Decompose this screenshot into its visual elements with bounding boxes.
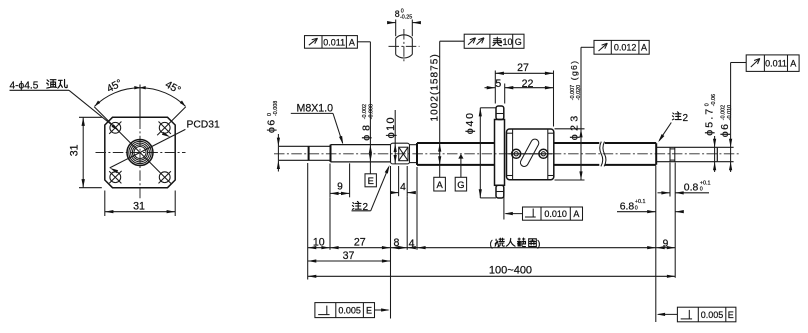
- PCD31 dimension line through center with outward arrows: [110, 129, 186, 168]
- svg-text:0.011: 0.011: [323, 37, 345, 47]
- svg-text:E: E: [728, 310, 734, 320]
- svg-text:1002(15875): 1002(15875): [430, 53, 441, 121]
- svg-text:ϕ23: ϕ23: [568, 112, 580, 140]
- nut grease hole screw left: [512, 149, 521, 158]
- svg-text:-0.25: -0.25: [400, 15, 412, 21]
- short neck before screw: [410, 144, 418, 146]
- runout frame 4: 0.012 A: [594, 40, 649, 54]
- dia5.7 dimension line: [714, 136, 716, 172]
- main centerline of screw shaft: [274, 153, 739, 155]
- svg-text:0.005: 0.005: [701, 310, 724, 320]
- svg-text:A: A: [641, 43, 647, 53]
- svg-text:-0.06: -0.06: [711, 94, 717, 106]
- perpendicularity frame: 0.005 E (bottom right): [677, 307, 736, 322]
- dimension 9 right (journal length): [656, 247, 675, 249]
- slot line through grease screws: [509, 153, 552, 155]
- label dia8 with tolerance: [361, 104, 375, 141]
- dimension 4 (snap ring groove width): [398, 166, 400, 196]
- svg-text:ϕ10: ϕ10: [385, 116, 397, 138]
- pipe break symbol: [600, 142, 603, 167]
- svg-text:): ): [537, 238, 540, 249]
- svg-text:2: 2: [363, 202, 369, 213]
- nut body: [507, 129, 554, 180]
- svg-text:0.012: 0.012: [614, 43, 637, 53]
- svg-text:0: 0: [705, 103, 711, 106]
- perpendicularity frame: 0.005 E (bottom left): [315, 303, 375, 318]
- label dia23 tolerance (g6): [568, 60, 582, 140]
- runout frame 1: 0.011 A (left top): [305, 36, 358, 49]
- feature control frame 1 leader + dia8 dimension line + datum E: [357, 41, 370, 43]
- svg-text:0: 0: [635, 205, 638, 211]
- datum box G with target arrow on centerline: [460, 158, 462, 177]
- datum box A (screw axis): [434, 177, 446, 191]
- svg-text:ϕ6: ϕ6: [265, 118, 277, 133]
- dimension dia10 groove section: [394, 110, 396, 164]
- svg-text:0.8: 0.8: [684, 182, 699, 193]
- flange front view centerline vertical (solid above square): [139, 85, 141, 119]
- 45deg radial tick through BL hole: [109, 171, 121, 183]
- svg-text:+0.1: +0.1: [700, 180, 711, 186]
- dimension row: 10 / 27 / 8 / 4 / hardened range / 9: [308, 247, 656, 249]
- dimension dia40 (nut flange OD): [480, 107, 496, 109]
- extension lines for 27/5/22: [494, 71, 496, 104]
- note2 label right (snap ring groove): [672, 112, 681, 120]
- perpendicular tick BR hole: [159, 171, 171, 183]
- svg-text:2: 2: [683, 113, 689, 124]
- dia6 right dimension line + frame5 leader: [731, 62, 747, 64]
- svg-text:-0.008: -0.008: [368, 104, 374, 119]
- svg-text:0.010: 0.010: [544, 209, 567, 219]
- M8 thread section step edges: [308, 146, 310, 161]
- perpendicular tick BL hole: [109, 171, 121, 183]
- 45deg radial tick through TR hole extended to arc: [157, 107, 186, 136]
- svg-text:37: 37: [343, 250, 355, 262]
- svg-text:-0.010: -0.010: [727, 105, 733, 120]
- bolt hole 1 (4-dia4.5): [110, 122, 121, 133]
- svg-text:31: 31: [68, 144, 80, 156]
- flange center thread rings (screw shank seen through): [127, 140, 153, 166]
- total runout frame: table10 G: [464, 34, 524, 48]
- svg-text:(g6): (g6): [569, 60, 579, 80]
- perpendicular tick TL hole: [109, 122, 121, 134]
- svg-text:A: A: [573, 209, 579, 219]
- retaining ring cross box: [399, 147, 408, 161]
- svg-text:-0.008: -0.008: [273, 101, 279, 116]
- svg-text:M8X1.0: M8X1.0: [297, 103, 334, 115]
- snap-ring groove section (dia10): [391, 143, 410, 164]
- datum box E (dia8 journal axis): [365, 174, 376, 187]
- 45deg angle dimension arc: [95, 88, 186, 107]
- dia23 extension lines from nut body: [555, 128, 585, 130]
- note2 label left (snap ring groove): [352, 201, 361, 209]
- svg-text:4-ϕ4.5: 4-ϕ4.5: [10, 80, 39, 91]
- svg-text:A: A: [349, 37, 355, 47]
- dimension 9 (M8 thread length): [329, 164, 331, 198]
- svg-text:A: A: [436, 179, 443, 190]
- section view centerlines: [389, 45, 420, 47]
- svg-text:ϕ40: ϕ40: [464, 111, 476, 134]
- bolt hole 2 (4-dia4.5): [159, 122, 170, 133]
- svg-text:G: G: [457, 179, 464, 190]
- svg-text:PCD31: PCD31: [187, 120, 220, 131]
- svg-text:5: 5: [495, 78, 501, 90]
- flange diagonal centerline (through TL and BR bolt holes, extended to 45deg arc): [94, 107, 171, 184]
- svg-text:9: 9: [663, 238, 669, 249]
- dimension 31 (flange height, left): [79, 116, 102, 118]
- svg-text:E: E: [366, 306, 372, 316]
- ball screw threaded shaft (left part): [416, 143, 418, 165]
- svg-text:A: A: [790, 58, 796, 68]
- dimension 10.02(1.5875) ball circle leader and datum A line: [440, 40, 465, 42]
- svg-text:4: 4: [400, 182, 406, 193]
- svg-text:27: 27: [354, 236, 366, 248]
- dia8 journal section: [331, 144, 391, 146]
- svg-text:-0.002: -0.002: [721, 105, 727, 120]
- nut grease hole screw right: [539, 149, 548, 158]
- svg-text:-0.007: -0.007: [570, 85, 576, 100]
- right journal dia6: [656, 146, 717, 148]
- svg-text:ϕ8: ϕ8: [361, 121, 373, 141]
- dimension 5 (flange thickness): [485, 87, 496, 89]
- svg-text:10: 10: [313, 236, 325, 248]
- svg-text:4: 4: [409, 238, 415, 250]
- flange front view centerline horizontal: [96, 152, 186, 154]
- dimension 31 (flange width, bottom): [104, 191, 106, 217]
- right end of screw thread (shoulder): [655, 143, 657, 165]
- svg-text:31: 31: [133, 200, 145, 212]
- svg-text:8: 8: [394, 237, 400, 249]
- label dia6 right with tolerance: [719, 105, 733, 137]
- svg-text:-0.002: -0.002: [362, 104, 368, 119]
- ball return tube slot: [519, 138, 540, 168]
- right snap ring groove (0.8 wide): [669, 147, 671, 161]
- left journal dia6 section: [277, 146, 279, 160]
- svg-text:E: E: [368, 175, 374, 186]
- svg-text:10: 10: [502, 37, 512, 47]
- wrench flats section view circle: [396, 35, 413, 39]
- bolt hole 3 (4-dia4.5): [110, 172, 121, 183]
- svg-text:0.011: 0.011: [765, 58, 787, 68]
- dimension 37: [308, 260, 391, 262]
- svg-text:0.005: 0.005: [338, 306, 361, 316]
- dimension 22: [505, 87, 554, 89]
- svg-text:+0.1: +0.1: [635, 199, 646, 205]
- perpendicularity frame: 0.010 A (below nut): [523, 207, 583, 220]
- label dia5.7 with tolerance: [703, 94, 717, 136]
- svg-text:22: 22: [522, 78, 534, 90]
- label dia6 with tolerance (left end): [265, 101, 279, 133]
- ball screw threaded shaft (right part with break): [554, 142, 599, 144]
- dimension 27 (nut length): [495, 72, 553, 74]
- dimension 8 across flats: [395, 20, 397, 37]
- svg-text:-0.020: -0.020: [576, 85, 582, 100]
- extension lines for bottom dimension rows: [307, 163, 309, 280]
- svg-text:27: 27: [517, 62, 529, 74]
- svg-text:100~400: 100~400: [489, 265, 532, 277]
- extension lines from right journal end: [717, 146, 733, 148]
- frame4 leader + dia23 dimension line: [581, 46, 594, 48]
- flange front view outline (31x31 square, chamfered corners): [105, 117, 175, 187]
- dia6 dimension arrows (left end): [277, 134, 279, 146]
- svg-text:G: G: [515, 37, 522, 47]
- nut flange plate (side view): [495, 120, 505, 186]
- svg-text:6.8: 6.8: [620, 201, 635, 212]
- runout frame 5: 0.011 A (right): [746, 55, 799, 72]
- svg-text:0: 0: [267, 113, 273, 116]
- svg-text:ϕ5.7: ϕ5.7: [703, 107, 715, 136]
- svg-text:ϕ6: ϕ6: [719, 122, 731, 137]
- svg-text:0: 0: [700, 187, 703, 193]
- perpendicular tick TR hole: [159, 122, 171, 134]
- svg-text:9: 9: [337, 182, 343, 193]
- dimension 100~400 overall length: [308, 275, 676, 277]
- bolt hole 4 (4-dia4.5): [159, 172, 170, 183]
